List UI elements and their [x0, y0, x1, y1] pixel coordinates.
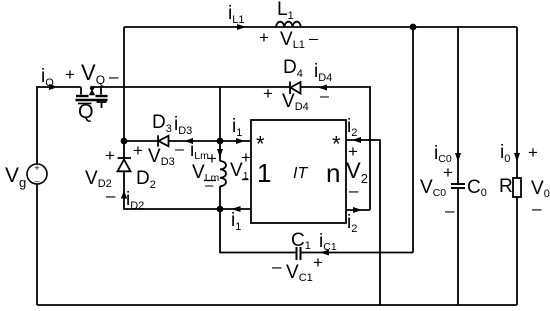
svg-text:D4: D4 — [283, 57, 303, 80]
wire D3 left segment — [124, 140, 157, 142]
svg-text:+: + — [443, 163, 453, 182]
junction dot node A — [121, 138, 128, 145]
wire vertical from Q wire down to node B — [219, 87, 221, 141]
wire D4 anode to right corner and down to transformer pin — [301, 87, 371, 210]
svg-text:–: – — [320, 88, 329, 105]
svg-text:–: – — [309, 31, 318, 48]
svg-text:n: n — [326, 158, 340, 188]
svg-text:–: – — [205, 177, 214, 194]
wire C1 branch right — [301, 252, 413, 254]
svg-text:i2: i2 — [347, 116, 357, 139]
diode D3 — [158, 135, 169, 146]
wire transformer secondary top pin and down to bottom rail — [346, 140, 380, 305]
svg-text:D3: D3 — [152, 112, 172, 135]
inductor L1 — [276, 22, 301, 27]
svg-text:iD3: iD3 — [174, 114, 192, 137]
capacitor C1 — [297, 247, 301, 260]
svg-text:+: + — [105, 146, 115, 165]
wire bottom rail — [37, 304, 517, 306]
svg-text:+: + — [65, 65, 75, 84]
arrow i2 top — [352, 137, 361, 143]
svg-text:+: + — [263, 84, 273, 103]
svg-text:–: – — [109, 67, 119, 86]
svg-text:IT: IT — [293, 165, 308, 182]
svg-text:i1: i1 — [232, 116, 242, 139]
diode D4 — [290, 82, 301, 95]
voltage source Vg — [27, 164, 47, 184]
svg-text:+: + — [528, 143, 538, 162]
inductor Lm — [220, 161, 226, 186]
wire right loop vertical x=413 — [412, 27, 414, 253]
arrow i1 bottom — [232, 206, 241, 212]
arrow iD3 — [185, 138, 194, 144]
svg-text:L1: L1 — [277, 0, 294, 22]
wire R branch bottom — [516, 197, 518, 305]
svg-text:C0: C0 — [467, 177, 487, 199]
wire transformer primary bottom pin — [220, 208, 251, 210]
wire Lm bottom segment — [219, 186, 221, 209]
svg-text:–: – — [349, 181, 359, 200]
wire D3 right segment — [169, 140, 221, 142]
svg-text:VL1: VL1 — [280, 29, 305, 51]
arrow iL1 — [237, 24, 246, 30]
svg-text:C1: C1 — [291, 230, 311, 252]
svg-text:iL1: iL1 — [228, 3, 244, 26]
svg-text:R: R — [499, 176, 513, 197]
arrow iQ — [49, 84, 58, 90]
svg-text:*: * — [332, 132, 341, 157]
transformer IT box — [251, 120, 346, 223]
svg-text:D2: D2 — [136, 168, 156, 191]
wire C0 branch bottom — [457, 189, 459, 306]
wire Vg top lead up and right to Q drain — [37, 87, 81, 164]
arrow iD4 — [318, 85, 327, 91]
svg-text:VD3: VD3 — [148, 146, 175, 168]
arrow i1 top — [236, 138, 245, 144]
transistor Q (MOSFET) — [76, 87, 108, 108]
wire C1 branch left — [220, 209, 296, 253]
svg-text:VC1: VC1 — [286, 262, 313, 284]
wire C0 branch top — [457, 27, 459, 184]
arrow i0 — [514, 153, 520, 162]
svg-text:iC0: iC0 — [434, 143, 452, 165]
svg-text:–: – — [106, 186, 116, 205]
svg-text:+: + — [34, 163, 39, 173]
svg-text:Q: Q — [78, 101, 94, 123]
wire Lm top segment — [219, 141, 221, 161]
svg-text:–: – — [34, 176, 39, 186]
wire R branch top — [516, 27, 518, 178]
svg-text:i0: i0 — [500, 142, 510, 165]
svg-text:iD2: iD2 — [126, 189, 144, 212]
capacitor C0 — [451, 184, 465, 188]
svg-text:iD4: iD4 — [314, 61, 332, 84]
resistor R — [513, 178, 521, 197]
svg-text:*: * — [256, 132, 265, 157]
wire top rail — [124, 26, 517, 28]
arrow iC1 — [320, 250, 329, 256]
junction dot top rail — [410, 24, 417, 31]
svg-text:iC1: iC1 — [319, 231, 337, 253]
svg-text:Vg: Vg — [5, 164, 26, 190]
wire transformer primary top pin — [220, 140, 251, 142]
arrow iC0 — [455, 153, 461, 162]
wire D2 branch vertical top — [123, 141, 125, 158]
svg-text:+: + — [259, 28, 269, 47]
svg-text:+: + — [207, 149, 217, 168]
svg-text:–: – — [532, 199, 542, 218]
svg-text:–: – — [175, 141, 184, 158]
diode D2 — [118, 158, 132, 171]
arrow i2 bottom — [353, 207, 362, 213]
arrow iD2 — [121, 191, 127, 199]
svg-text:i1: i1 — [231, 210, 241, 233]
svg-text:i2: i2 — [347, 212, 357, 235]
svg-text:iQ: iQ — [41, 66, 54, 89]
svg-text:1: 1 — [257, 158, 271, 188]
wire transformer secondary bottom pin — [346, 209, 370, 211]
wire left vertical x=124 from top rail to node A — [123, 27, 125, 141]
junction dot node B — [217, 138, 224, 145]
svg-text:VD4: VD4 — [282, 91, 309, 113]
arrow iLm — [217, 149, 223, 158]
svg-text:+: + — [133, 141, 143, 160]
svg-text:+: + — [313, 253, 323, 272]
wire Q source to D4 cathode — [92, 86, 289, 88]
svg-text:V0: V0 — [531, 178, 550, 200]
svg-text:–: – — [272, 257, 282, 276]
svg-text:VQ: VQ — [81, 60, 105, 87]
wire D2 branch vertical bottom and to node C — [124, 171, 220, 209]
wire Vg bottom lead — [36, 184, 38, 305]
junction dot node C — [217, 206, 224, 213]
svg-text:–: – — [445, 201, 455, 220]
